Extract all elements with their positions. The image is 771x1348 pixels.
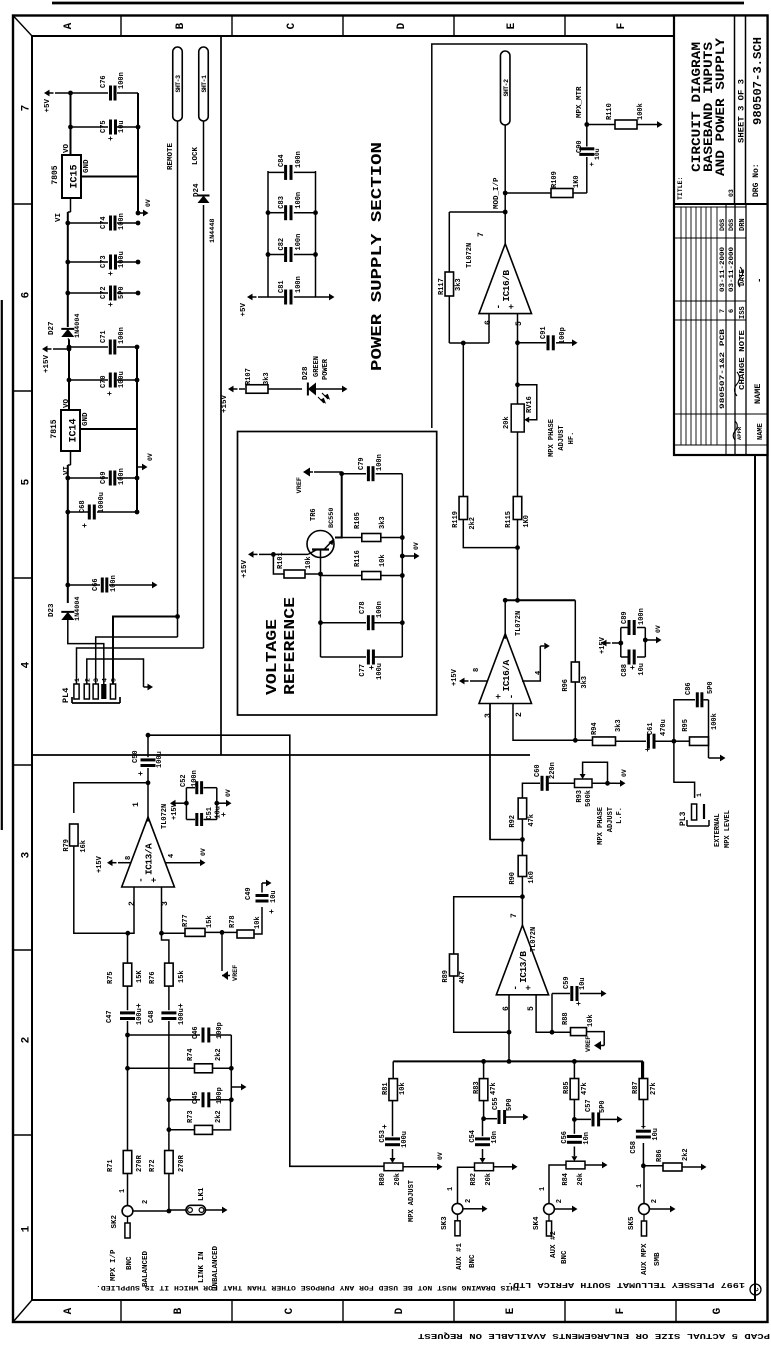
svg-text:C73: C73 [100,255,108,268]
svg-text:10k: 10k [399,1082,407,1095]
svg-text:BNC: BNC [561,1250,569,1264]
svg-text:R117: R117 [438,278,446,295]
svg-text:10u: 10u [594,148,601,160]
svg-text:3: 3 [93,678,100,682]
ground 0V C55 [519,1116,523,1118]
svg-text:R119: R119 [452,511,460,528]
section divider power supply bottom [220,36,222,755]
wire 0V rail IC14 right [136,347,138,429]
svg-text:G: G [712,1307,724,1314]
svg-text:+: + [575,1001,584,1006]
svg-text:ISS: ISS [739,306,747,319]
capacitor C61 470u [647,734,650,749]
capacitor C58 10u [642,1143,644,1166]
svg-text:+5V: +5V [240,303,248,317]
resistor R76 15k [165,963,174,986]
title block outline [674,16,768,456]
wire R95 C86 bottom rail [708,700,710,758]
ground 0V C51 C52 [214,801,219,806]
wire feedback to pin2 [513,704,575,741]
diode D23 1N4004 [67,620,69,629]
svg-text:1000u: 1000u [98,492,106,513]
svg-text:R92: R92 [509,815,517,828]
svg-text:100n: 100n [295,151,303,168]
svg-text:47k: 47k [490,1082,498,1095]
svg-text:R115: R115 [505,511,513,528]
revision scribbles [735,372,740,396]
svg-text:100n: 100n [110,575,118,592]
svg-text:C91: C91 [540,326,548,339]
svg-text:3k3: 3k3 [379,516,387,529]
power +15V arrow R107 [228,386,234,393]
ground 0V C89 [643,638,648,643]
svg-text:03-11-2000: 03-11-2000 [719,247,726,292]
wire SK2 pin1 [127,1173,129,1205]
svg-text:MPX LEVEL: MPX LEVEL [724,810,732,848]
svg-text:03-11-2000: 03-11-2000 [728,247,735,292]
svg-text:5P0: 5P0 [707,681,715,694]
wire IC15 output rail [70,93,72,155]
resistor R96 3k3 feedback [574,600,576,661]
wire SK3 pin1 [458,1167,475,1203]
svg-text:B: B [173,1307,185,1314]
ground 0V IC14 rail [136,467,138,478]
svg-text:ADJUST: ADJUST [558,425,566,450]
svg-text:+: + [589,162,597,167]
svg-text:470u: 470u [660,719,668,736]
svg-text:1K0: 1K0 [573,175,581,188]
resistor R105 3k3 [342,537,361,539]
svg-text:C74: C74 [100,216,108,229]
svg-text:R86: R86 [656,1149,664,1162]
svg-text:+: + [381,1124,390,1129]
svg-text:100n: 100n [295,234,303,251]
wire +15V node TR6 [271,552,276,557]
wire R101 to base line [305,573,321,575]
capacitor C75 10u [71,126,109,128]
svg-text:+: + [107,136,116,141]
resistor R116 10k [321,575,362,577]
svg-text:TL072N: TL072N [515,611,523,636]
capacitor C90 10u [579,153,594,156]
capacitor C46 100p [128,1034,201,1036]
ground 0V LK1 [218,1209,222,1211]
svg-text:4: 4 [101,678,108,682]
wire IC15 gnd pin [81,176,138,178]
svg-text:C60: C60 [534,764,542,777]
pot R82 20k [475,1163,494,1171]
wire RC bottom rail [230,1035,232,1100]
svg-text:PCAD 5 ACTUAL SIZE OR ENLAR: PCAD 5 ACTUAL SIZE OR ENLARGEMENTS AVAIL… [417,1331,770,1339]
svg-text:DRN: DRN [739,218,747,231]
svg-text:1: 1 [74,678,81,682]
pot R80 20k MPX ADJUST [384,1163,403,1171]
svg-text:C81: C81 [278,280,286,293]
svg-text:3: 3 [161,901,170,906]
wire C61 junction [672,739,677,744]
svg-text:D24: D24 [193,183,201,197]
svg-text:C66: C66 [92,578,100,591]
svg-text:UNBALANCED: UNBALANCED [212,1245,220,1291]
svg-text:D: D [396,22,408,29]
wire IC13/B output [521,876,523,927]
svg-text:E: E [505,1307,517,1314]
svg-text:10k: 10k [379,554,387,567]
svg-text:2: 2 [651,1199,659,1203]
svg-text:R83: R83 [473,1081,481,1094]
svg-text:DRG No:: DRG No: [752,163,761,197]
svg-text:D23: D23 [48,603,56,617]
ground 0V C57 [613,1118,617,1120]
svg-text:100n: 100n [638,608,646,625]
svg-text:27k: 27k [650,1082,658,1095]
svg-text:SK3: SK3 [441,1216,449,1230]
svg-text:1: 1 [21,1225,33,1232]
svg-text:+: + [137,771,146,776]
svg-text:VREF: VREF [585,1036,593,1052]
svg-text:IC15: IC15 [70,164,81,188]
wire TR6 emitter line [335,472,342,538]
svg-text:SHT-3: SHT-3 [175,75,182,93]
svg-text:C77: C77 [359,664,367,677]
svg-text:C48: C48 [148,1010,156,1023]
svg-text:C46: C46 [192,1026,200,1039]
svg-text:+: + [524,985,534,990]
power +15V arrow top [42,346,48,353]
svg-text:R84: R84 [562,1173,570,1186]
capacitor C49 10u [254,907,262,934]
svg-text:270R: 270R [178,1154,186,1172]
wire R82 to gnd [494,1166,509,1168]
svg-text:1: 1 [696,793,703,797]
svg-text:C57: C57 [585,1099,593,1112]
grid row ticks right strip [120,16,122,37]
svg-text:TL072N: TL072N [530,927,538,952]
wire IC14 input rail [67,465,69,603]
section divider left vertical [32,754,530,756]
wire PL4 pin4 to D23 [68,629,104,684]
bnc SK3 AUX 1 [452,1203,463,1214]
svg-text:20k: 20k [577,1173,585,1186]
svg-text:MOD_I/P: MOD_I/P [493,177,501,209]
svg-text:R79: R79 [63,839,71,852]
svg-text:7: 7 [719,309,727,313]
svg-text:BNC: BNC [126,1256,134,1270]
svg-text:5P0: 5P0 [118,286,126,299]
ground 0V vref [402,555,410,557]
svg-text:7: 7 [21,105,33,112]
revision table row lines [725,204,727,455]
wire IC13/B pin6 [508,995,510,1062]
wire R94 to C61 [616,740,647,742]
wire R81 to bus [392,1061,394,1078]
flag LOCK SHT-1 [199,47,209,121]
label VREF R88 [587,1032,605,1046]
wire R76 to pin3 [162,933,169,963]
svg-text:C59: C59 [563,976,571,989]
ground 0V C49 [262,882,266,884]
svg-text:C45: C45 [192,1091,200,1104]
capacitor C50 100u [141,764,156,767]
svg-text:DGS: DGS [719,219,727,231]
ground 0V SK4 [555,1208,568,1210]
capacitor C60 220n [541,776,544,791]
svg-text:6: 6 [21,292,33,299]
wire rail to D27 [68,339,70,347]
wire R90 R92 output chain [521,875,523,877]
transistor TR6 BC550 [307,531,334,558]
svg-text:IC16/B: IC16/B [501,270,512,302]
svg-text:+15V: +15V [241,560,249,579]
svg-text:R89: R89 [442,970,450,983]
svg-text:1997 PLESSEY TELLUMAT SOUTH AF: 1997 PLESSEY TELLUMAT SOUTH AFRICA LTD. [507,1280,745,1288]
wire IC13/A pin3 node [159,931,164,936]
svg-text:2: 2 [21,1037,33,1044]
capacitor C86 5P0 [696,692,699,707]
svg-text:THIS DRAWING MUST NOT BE USED: THIS DRAWING MUST NOT BE USED FOR ANY PU… [96,1283,520,1291]
svg-text:10u: 10u [638,663,646,676]
svg-text:3k3: 3k3 [581,676,589,689]
revision table column lines [674,444,768,446]
op-amp IC13/A TL072N [122,817,175,887]
svg-text:980507-3.SCH: 980507-3.SCH [751,37,765,125]
capacitor C81 100n [268,296,284,298]
wire PL4 pin2 to gnd [87,659,144,687]
wire junction to PL3 [674,741,695,798]
resistor R92 47k [518,798,527,819]
svg-text:VREF: VREF [232,965,240,981]
svg-text:C52: C52 [180,774,188,787]
svg-text:5: 5 [515,321,524,326]
capacitor C79 100n [339,471,344,476]
svg-text:7815: 7815 [50,419,59,438]
capacitor C77 100u [321,656,367,658]
svg-text:15K: 15K [136,970,144,983]
svg-text:2k2: 2k2 [215,1048,223,1061]
capacitor C55 5P0 [484,1118,497,1120]
svg-text:R93: R93 [576,790,584,803]
svg-text:100n: 100n [295,276,303,293]
svg-text:R76: R76 [149,971,157,984]
svg-text:100k: 100k [711,713,719,730]
capacitor C53 100u [385,1143,400,1146]
svg-text:R116: R116 [354,550,362,567]
wire REMOTE line [177,121,179,637]
svg-text:2: 2 [142,1200,150,1204]
revision table thin rows [680,207,682,445]
svg-text:5P0: 5P0 [506,1098,514,1111]
svg-text:AUX #1: AUX #1 [456,1242,464,1270]
resistor R86 2k2 [643,1165,663,1167]
wire TR6 collector [273,553,308,555]
svg-text:+: + [150,877,160,882]
svg-text:100p: 100p [216,1022,224,1039]
ground 0V R95 [709,757,717,759]
svg-text:2: 2 [128,901,137,906]
wire LED to gnd [316,388,338,390]
svg-text:+: + [220,812,229,817]
svg-text:C55: C55 [492,1097,500,1110]
svg-text:IC13/A: IC13/A [144,843,155,875]
svg-text:+: + [177,1003,186,1008]
svg-text:C58: C58 [630,1141,638,1154]
op-amp IC13/B TL072N [496,925,548,995]
svg-text:1K0: 1K0 [523,515,531,528]
svg-text:2: 2 [515,712,524,717]
svg-text:C90: C90 [576,140,584,153]
svg-text:10n: 10n [583,1132,591,1145]
title drg row line [745,16,747,205]
svg-text:R87: R87 [632,1081,640,1094]
svg-text:-: - [511,985,521,990]
svg-text:LOCK: LOCK [192,146,200,165]
svg-text:47k: 47k [581,1082,589,1095]
wire MPX_MTR return up [432,44,587,428]
svg-text:2: 2 [465,1199,473,1203]
svg-text:0V: 0V [413,542,420,550]
wire TR6 base line [320,550,322,658]
svg-text:10k: 10k [305,556,313,569]
capacitor C45 100p [169,1099,200,1101]
flag REMOTE SHT-3 [173,47,183,121]
svg-text:100u: 100u [376,663,384,680]
capacitor C69 100n [68,477,108,479]
svg-text:3k3: 3k3 [615,719,623,732]
svg-text:C69: C69 [100,471,108,484]
svg-text:IC14: IC14 [69,418,80,442]
svg-text:0V: 0V [200,848,207,856]
svg-text:0V: 0V [621,769,628,777]
svg-text:R109: R109 [551,171,559,188]
svg-text:3: 3 [21,851,33,858]
svg-text:15k: 15k [206,915,214,928]
ground 0V R93 [616,782,620,784]
svg-text:+: + [107,302,116,307]
svg-text:C71: C71 [100,330,108,343]
wire IC16/B pin5 line right [517,314,519,404]
svg-text:F: F [616,23,628,30]
svg-text:TL072N: TL072N [161,804,169,829]
resistor R71 270R [123,1151,132,1174]
svg-text:C50: C50 [132,750,140,763]
decoupler C51 C52 rails [185,788,187,820]
ground 0V C81 bank [316,296,326,298]
svg-text:+15V: +15V [451,668,459,686]
connector PL3 EXTERNAL MPX LEVEL [692,804,697,820]
capacitor C56 10n [567,1141,582,1144]
resistor R95 100k [674,740,689,742]
svg-text:47k: 47k [528,814,536,827]
svg-text:NAME: NAME [757,423,765,440]
svg-text:POWER: POWER [322,358,330,380]
svg-text:C51: C51 [206,807,214,820]
svg-text:AND POWER SUPPLY: AND POWER SUPPLY [714,37,728,176]
svg-text:SK2: SK2 [111,1215,119,1229]
power +5V arrow [44,90,50,97]
svg-text:10u: 10u [652,1128,660,1141]
diode D24 1N4448 [198,196,210,204]
pot R84 20k [566,1161,585,1169]
svg-text:R73: R73 [187,1110,195,1123]
svg-text:10k: 10k [254,916,262,929]
ground 0V C91 [568,342,572,344]
led D28 GREEN POWER [308,383,316,396]
wire R90 node to IC16/A pin3 [490,704,522,840]
decoupler C88 C89 [620,628,622,658]
wire C54 to R83 [483,1118,484,1120]
svg-text:1: 1 [119,1189,127,1193]
svg-text:TITLE:: TITLE: [677,177,684,200]
svg-text:NAME: NAME [753,384,763,404]
wire PL4 pin1 to LOCK [77,648,204,684]
svg-text:REMOTE: REMOTE [167,142,175,170]
resistor R73 2k2 [169,1129,194,1131]
svg-text:5: 5 [21,478,33,485]
svg-text:10k: 10k [587,1014,595,1027]
ground 0V SK5 [650,1208,666,1210]
svg-text:100k: 100k [637,103,645,120]
svg-text:R96: R96 [562,679,570,692]
capacitor C88 10u [621,656,628,658]
svg-text:1N4004: 1N4004 [74,597,82,621]
svg-text:IC16/A: IC16/A [501,659,512,691]
wire R109 branch [505,192,551,194]
resistor R115 1K0 series [517,520,519,601]
wire SK5 pin1 [643,1166,645,1204]
capacitor C52 100n [186,787,195,789]
svg-text:C53: C53 [379,1130,387,1143]
wire MPX_MTR line [586,157,588,193]
wire IC14 gnd pin [80,428,137,430]
grid row ticks left strip [120,1300,122,1322]
svg-text:C78: C78 [359,601,367,614]
svg-text:DGS: DGS [728,219,736,231]
resistor R117 3k3 feedback [448,296,450,343]
svg-text:16k: 16k [80,840,88,853]
svg-text:C54: C54 [469,1130,477,1143]
wire R75 to pin2 [127,933,129,963]
svg-text:100n: 100n [118,468,126,485]
svg-text:GND: GND [83,159,91,173]
svg-text:R88: R88 [562,1012,570,1025]
capacitor C59 10u [551,994,553,1033]
ground 0V R82 [508,1166,512,1168]
ground 0V R80 [433,1166,437,1168]
wire line2 mid [168,1021,170,1151]
svg-text:-: - [494,304,504,309]
svg-text:MPX ADJUST: MPX ADJUST [408,1180,416,1222]
svg-text:C88: C88 [621,664,629,677]
capacitor C54 10n [475,1143,490,1146]
svg-text:EXTERNAL: EXTERNAL [714,813,722,847]
capacitor C66 100n [68,584,100,586]
svg-text:7: 7 [510,913,519,918]
svg-text:270R: 270R [136,1154,144,1172]
svg-text:4K7: 4K7 [459,971,467,984]
resistor R75 15K [123,963,132,986]
resistor R72 270R [165,1151,174,1174]
svg-text:AUX MPX: AUX MPX [641,1243,649,1275]
svg-text:LK1: LK1 [198,1187,206,1201]
svg-text:R74: R74 [187,1048,195,1061]
svg-text:PL3: PL3 [679,811,688,826]
svg-text:6: 6 [728,309,736,313]
svg-text:AUX #2: AUX #2 [550,1230,558,1258]
svg-text:+15V: +15V [43,355,51,374]
wire C81-C84 bottom rail [315,171,317,297]
svg-text:+: + [494,694,504,699]
svg-text:R72: R72 [149,1159,157,1172]
